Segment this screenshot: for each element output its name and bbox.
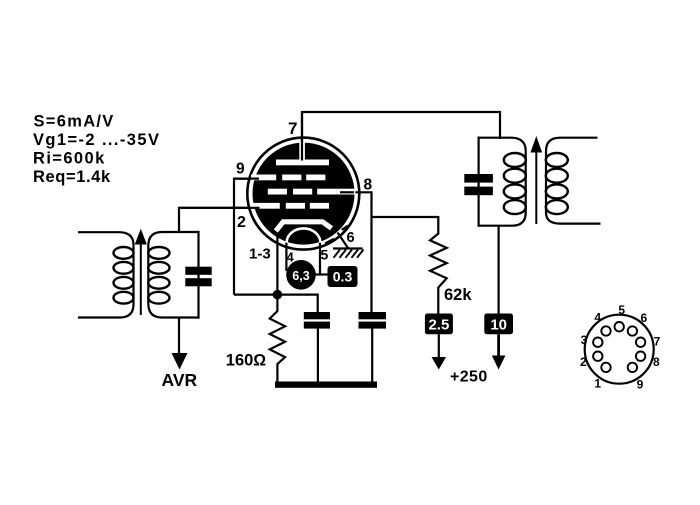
svg-text:4: 4 xyxy=(594,310,601,324)
svg-text:8: 8 xyxy=(653,355,660,369)
svg-text:Ri=600k: Ri=600k xyxy=(33,150,106,168)
svg-text:0.3: 0.3 xyxy=(333,269,353,285)
svg-text:Vg1=-2 ...-35V: Vg1=-2 ...-35V xyxy=(33,131,160,149)
svg-text:7: 7 xyxy=(288,119,297,138)
svg-text:2: 2 xyxy=(580,355,587,369)
svg-text:7: 7 xyxy=(654,334,661,348)
svg-text:2.5: 2.5 xyxy=(428,317,449,334)
svg-text:9: 9 xyxy=(236,161,245,178)
svg-text:62k: 62k xyxy=(444,286,472,304)
svg-text:5: 5 xyxy=(321,247,329,263)
svg-text:10: 10 xyxy=(490,317,507,334)
svg-text:S=6mA/V: S=6mA/V xyxy=(34,113,115,131)
svg-text:Req=1.4k: Req=1.4k xyxy=(33,168,111,186)
svg-text:4: 4 xyxy=(287,250,295,265)
svg-text:6: 6 xyxy=(347,230,355,246)
svg-text:AVR: AVR xyxy=(162,370,198,390)
svg-text:1-3: 1-3 xyxy=(249,246,271,263)
svg-text:3: 3 xyxy=(581,333,588,347)
svg-text:6,3: 6,3 xyxy=(292,269,309,283)
svg-text:160Ω: 160Ω xyxy=(226,352,267,370)
svg-text:5: 5 xyxy=(618,303,625,317)
svg-text:+250: +250 xyxy=(450,369,488,386)
svg-text:8: 8 xyxy=(364,177,373,194)
svg-text:1: 1 xyxy=(594,377,601,391)
svg-text:6: 6 xyxy=(641,311,648,325)
svg-text:9: 9 xyxy=(637,378,644,392)
svg-text:2: 2 xyxy=(237,214,246,231)
